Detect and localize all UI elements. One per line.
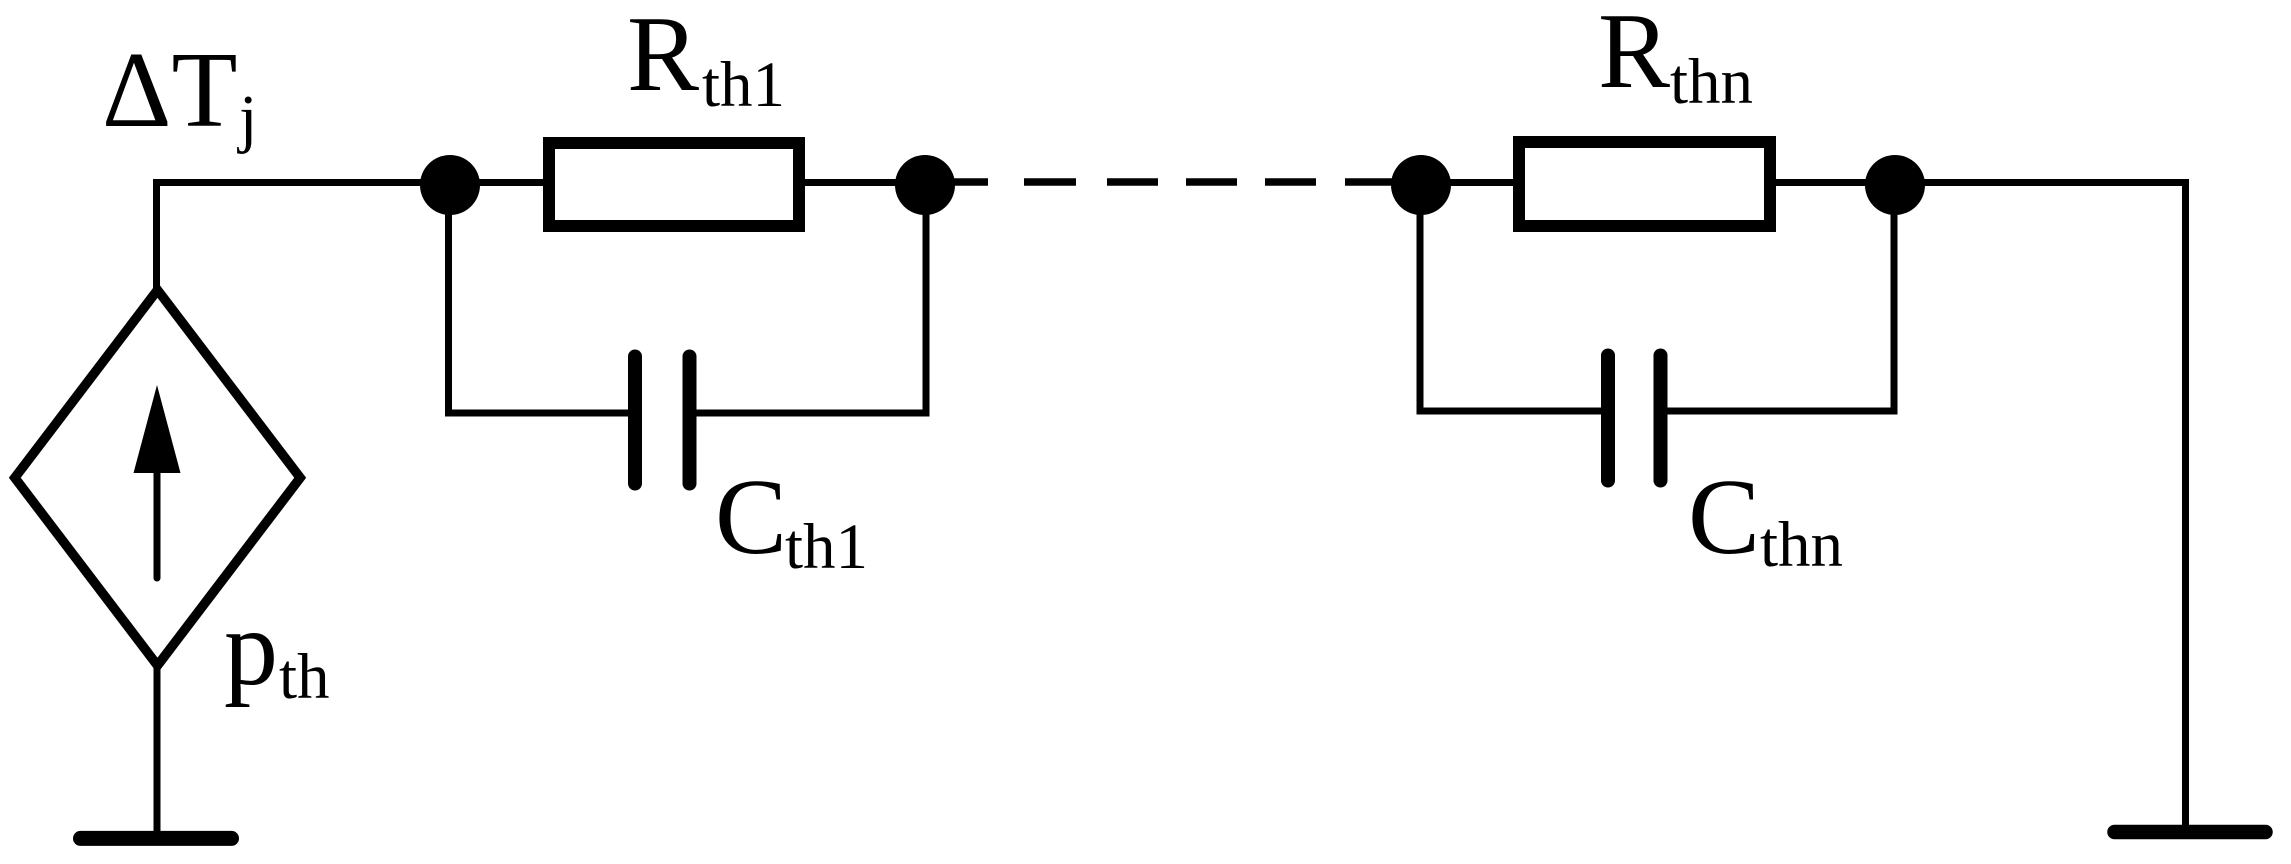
wire capacitor C_th1 up to node 2: [696, 185, 926, 413]
svg-text:j: j: [237, 82, 257, 155]
svg-text:thn: thn: [1670, 46, 1753, 118]
wire node 3 down to capacitor C_thn: [1420, 185, 1601, 411]
svg-text:th1: th1: [785, 511, 868, 583]
wire (dashed) from node 2 to node 3: [925, 178, 1421, 186]
svg-text:ΔT: ΔT: [102, 31, 237, 150]
svg-text:th1: th1: [702, 49, 785, 121]
ground (left): [81, 831, 232, 846]
node 4: [1865, 155, 1925, 215]
svg-text:p: p: [224, 589, 278, 708]
current source p_th (diamond): [15, 290, 300, 666]
label ΔT_j: [102, 31, 257, 155]
resistor R_thn: [1519, 142, 1770, 226]
capacitor C_thn: [1608, 356, 1661, 481]
capacitor C_th1: [635, 357, 690, 484]
svg-text:C: C: [715, 458, 787, 577]
svg-text:R: R: [627, 0, 699, 114]
wire node 1 to resistor R_th1: [450, 179, 547, 186]
arrow of current source: [134, 385, 181, 578]
ground (right): [2115, 825, 2266, 840]
wire from ΔT_j corner to node 1: [157, 183, 453, 295]
wire resistor R_thn to node 4: [1772, 179, 1895, 186]
label p_th: [224, 589, 330, 713]
node 1: [420, 155, 480, 215]
label R_thn: [1598, 0, 1753, 118]
label R_th1: [627, 0, 785, 121]
wire node 1 down to capacitor C_th1: [449, 185, 630, 413]
node 3: [1391, 155, 1451, 215]
node 2: [895, 155, 955, 215]
label C_th1: [715, 458, 868, 583]
svg-text:R: R: [1598, 0, 1670, 111]
svg-text:thn: thn: [1760, 509, 1843, 581]
wire capacitor C_thn up to node 4: [1667, 185, 1894, 411]
svg-text:C: C: [1688, 458, 1760, 577]
wire resistor R_th1 to node 2: [801, 179, 925, 186]
wire from current source to left ground: [154, 663, 161, 834]
svg-text:th: th: [279, 641, 330, 713]
wire node 3 to resistor R_thn: [1421, 179, 1517, 186]
resistor R_th1: [549, 143, 799, 226]
wire node 4 to right ground: [1895, 183, 2186, 830]
label C_thn: [1688, 458, 1843, 581]
